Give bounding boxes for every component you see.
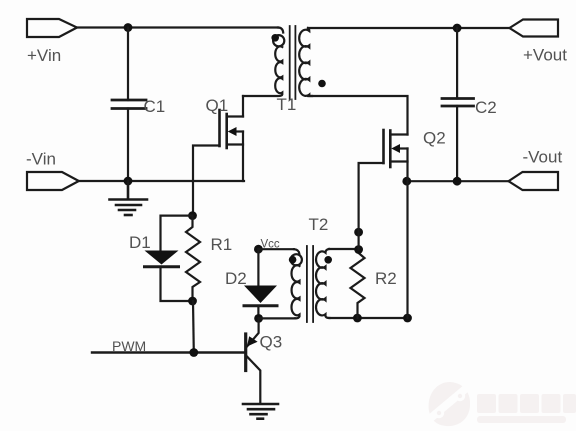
wire +Vin rail to T1 primary top	[77, 26, 278, 28]
wire C1 top lead	[127, 28, 129, 101]
resistor R2	[351, 250, 365, 319]
svg-text:-Vin: -Vin	[26, 150, 56, 169]
wire Q2 source down to bottom rail	[406, 149, 408, 319]
wire node to T2 primary bottom	[259, 317, 295, 319]
svg-text:R2: R2	[375, 269, 397, 288]
svg-text:+Vin: +Vin	[27, 46, 61, 65]
T1 secondary winding	[299, 28, 312, 96]
capacitor C1	[112, 100, 146, 109]
svg-text:-Vout: -Vout	[523, 148, 563, 167]
svg-text:D2: D2	[225, 269, 247, 288]
D2 cathode bar	[244, 304, 277, 307]
ground under Q3	[243, 404, 278, 419]
Q2 body arrow	[391, 144, 400, 153]
Q3 emitter lead	[247, 318, 259, 346]
T2 primary winding	[294, 249, 299, 254]
wire D2 cathode lead	[257, 306, 259, 319]
transistor Q3	[246, 318, 282, 403]
node junction D1 R1 top	[188, 211, 197, 220]
T1 primary phase dot	[271, 34, 279, 42]
Q2 drain stub	[390, 133, 407, 135]
node junction C1 top	[124, 23, 133, 32]
svg-text:Q2: Q2	[423, 129, 446, 148]
diode D1	[145, 251, 179, 265]
svg-text:R1: R1	[211, 235, 233, 254]
wire Q2 source to -Vout	[407, 180, 510, 182]
svg-text:Q1: Q1	[206, 96, 229, 115]
node junction C2 top	[453, 24, 462, 33]
Q1 source stub	[227, 143, 243, 145]
capacitor C2	[442, 99, 474, 107]
watermark logo	[427, 382, 576, 426]
resistor R1	[186, 216, 200, 301]
Q3 base bar	[244, 334, 247, 371]
wire T2 secondary top to R2 node	[329, 248, 359, 250]
svg-text:C1: C1	[144, 97, 166, 116]
wire T1 secondary bottom to Q2 drain	[308, 96, 408, 135]
wire Q1 gate	[193, 146, 220, 216]
diode D2	[244, 286, 277, 304]
svg-text:Q3: Q3	[260, 333, 283, 352]
node junction C2 bottom	[453, 177, 462, 186]
wire Q1 source down to -Vin rail	[242, 132, 244, 182]
wire Vcc node to T2 primary top	[258, 248, 294, 250]
node dot on gate wire	[354, 228, 363, 237]
svg-text:+Vout: +Vout	[523, 46, 567, 65]
wire C2 bottom lead	[456, 106, 458, 181]
svg-text:T1: T1	[277, 95, 297, 114]
T2 secondary winding	[316, 249, 329, 318]
ground under C1	[110, 181, 148, 215]
Q1 drain stub	[227, 115, 243, 117]
wire node to D1 top	[161, 216, 193, 251]
Q1 body stub	[234, 130, 243, 132]
wire D2 anode lead	[257, 249, 259, 285]
node junction D1 R1 bottom	[188, 297, 197, 306]
node junction bottom right	[403, 314, 412, 323]
node junction R2 top	[354, 245, 363, 254]
transformer T2	[289, 215, 332, 322]
svg-text:T2: T2	[309, 215, 329, 234]
node junction Vcc	[254, 245, 263, 254]
Q3 collector lead	[247, 357, 260, 404]
mosfet Q1	[206, 96, 244, 148]
wire C1 bottom lead	[127, 109, 129, 182]
T2 primary phase dot	[289, 256, 297, 264]
Q1 channel bar	[225, 114, 228, 148]
T1 primary winding	[278, 28, 283, 33]
wire C2 top lead	[456, 28, 458, 99]
node junction C1 bottom	[124, 177, 133, 186]
connector -Vin	[27, 172, 79, 190]
connector +Vin	[27, 19, 77, 37]
svg-text:D1: D1	[129, 233, 151, 252]
node junction PWM base	[189, 348, 198, 357]
Q2 source stub	[390, 160, 407, 162]
Q2 gate bar	[382, 130, 385, 163]
Q3 emitter arrow	[247, 336, 258, 346]
wire T1 secondary top to +Vout	[308, 27, 510, 29]
T2 core	[306, 246, 308, 322]
connector +Vout	[510, 20, 559, 37]
T1 secondary phase dot	[318, 80, 326, 88]
wire T1 primary bottom to Q1 drain	[242, 96, 244, 117]
D1 cathode bar	[145, 265, 179, 268]
wire -Vin rail	[78, 180, 244, 182]
connector -Vout	[509, 172, 559, 190]
wire PWM	[92, 351, 244, 353]
T2 secondary phase dot	[324, 256, 332, 264]
mosfet Q2	[384, 129, 446, 168]
node junction Q3 collector T2	[254, 314, 263, 323]
node junction R2 bottom	[353, 314, 362, 323]
Q2 channel bar	[389, 131, 392, 168]
svg-text:C2: C2	[475, 98, 497, 117]
T1 core	[289, 26, 291, 99]
wire T2 bottom rail	[330, 317, 408, 319]
node junction Q2 source	[402, 177, 411, 186]
wire node down to PWM line	[192, 301, 195, 353]
transformer T1	[243, 26, 326, 114]
Q2 body stub	[398, 147, 408, 149]
wire D1 bottom to node	[161, 267, 193, 301]
Q1 body arrow	[228, 127, 237, 136]
wire Q2 gate down to T2	[359, 163, 384, 250]
Q1 gate bar	[218, 110, 221, 146]
svg-text:PWM: PWM	[112, 338, 146, 354]
